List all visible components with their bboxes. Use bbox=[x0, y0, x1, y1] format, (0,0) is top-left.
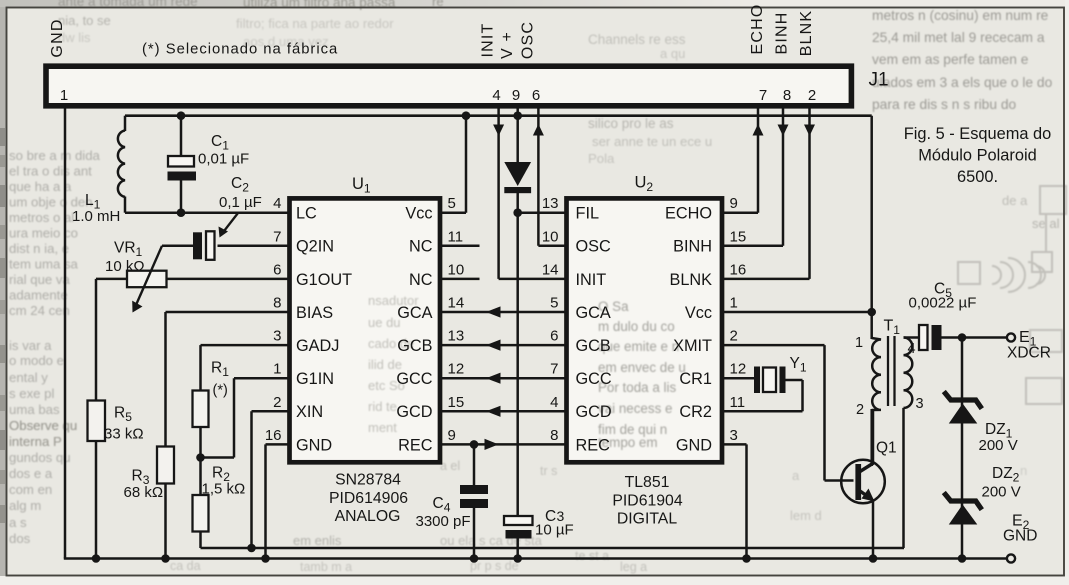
svg-text:(*): (*) bbox=[213, 383, 228, 399]
svg-text:tem uma sa: tem uma sa bbox=[9, 257, 79, 272]
svg-text:DIGITAL: DIGITAL bbox=[617, 511, 677, 528]
svg-text:INIT: INIT bbox=[576, 271, 607, 289]
svg-text:BIAS: BIAS bbox=[296, 304, 333, 322]
svg-text:ca da: ca da bbox=[170, 559, 201, 573]
svg-text:8: 8 bbox=[550, 427, 558, 444]
svg-text:200 V: 200 V bbox=[979, 437, 1018, 454]
svg-text:GADJ: GADJ bbox=[296, 337, 339, 355]
svg-text:15: 15 bbox=[448, 394, 465, 411]
svg-text:0,1 µF: 0,1 µF bbox=[219, 194, 262, 211]
svg-text:5: 5 bbox=[448, 195, 456, 212]
svg-text:so bre a m dida: so bre a m dida bbox=[9, 148, 101, 163]
svg-text:Vcc: Vcc bbox=[405, 205, 432, 223]
svg-text:0,01 µF: 0,01 µF bbox=[198, 151, 249, 168]
svg-text:que ha a a: que ha a a bbox=[9, 179, 72, 194]
svg-text:tamb m a: tamb m a bbox=[300, 560, 352, 574]
svg-text:ulados em 3 a els que o le: ulados em 3 a els que o le do bbox=[872, 75, 1053, 90]
svg-text:GCB: GCB bbox=[397, 337, 432, 355]
svg-text:1.0 mH: 1.0 mH bbox=[72, 208, 120, 225]
svg-text:6: 6 bbox=[550, 328, 558, 345]
svg-text:ental y: ental y bbox=[9, 370, 48, 385]
svg-text:GCC: GCC bbox=[396, 370, 432, 388]
svg-text:ura meio co: ura meio co bbox=[9, 226, 78, 241]
svg-text:GCB: GCB bbox=[576, 337, 611, 355]
svg-text:leg a: leg a bbox=[620, 560, 647, 574]
svg-text:ECHO: ECHO bbox=[665, 205, 712, 223]
svg-text:GCA: GCA bbox=[397, 304, 432, 322]
svg-text:em enlis: em enlis bbox=[293, 533, 342, 548]
svg-text:10 µF: 10 µF bbox=[535, 522, 574, 539]
svg-text:4: 4 bbox=[273, 195, 281, 212]
svg-text:NC: NC bbox=[409, 271, 433, 289]
svg-text:XMIT: XMIT bbox=[673, 337, 712, 355]
svg-text:11: 11 bbox=[730, 394, 746, 411]
svg-text:BINH: BINH bbox=[774, 11, 791, 54]
svg-text:9: 9 bbox=[448, 427, 456, 444]
svg-text:3: 3 bbox=[915, 396, 923, 412]
svg-text:LC: LC bbox=[296, 205, 317, 223]
svg-text:GND: GND bbox=[296, 436, 332, 454]
svg-text:filtro; fica na parte ao redor: filtro; fica na parte ao redor bbox=[236, 16, 394, 31]
svg-text:REC: REC bbox=[398, 436, 433, 454]
svg-text:7: 7 bbox=[273, 228, 281, 245]
svg-text:(*) Selecionado na fábrica: (*) Selecionado na fábrica bbox=[142, 42, 338, 58]
svg-text:uma bas: uma bas bbox=[9, 402, 60, 417]
svg-text:GCA: GCA bbox=[576, 304, 611, 322]
svg-text:a el: a el bbox=[440, 459, 460, 473]
svg-text:vem em as perfe tamen e: vem em as perfe tamen e bbox=[872, 52, 1029, 67]
svg-text:NC: NC bbox=[409, 238, 433, 256]
svg-text:Channels re ess: Channels re ess bbox=[588, 32, 686, 47]
svg-text:a: a bbox=[792, 468, 800, 483]
svg-text:ANALOG: ANALOG bbox=[335, 508, 401, 525]
svg-text:1,5 kΩ: 1,5 kΩ bbox=[202, 481, 246, 498]
svg-text:dos e a: dos e a bbox=[9, 466, 53, 481]
svg-text:te st a: te st a bbox=[575, 549, 609, 563]
svg-text:FIL: FIL bbox=[576, 205, 600, 223]
svg-text:9: 9 bbox=[512, 87, 520, 104]
svg-text:68 kΩ: 68 kΩ bbox=[124, 484, 164, 501]
svg-text:o modo e: o modo e bbox=[9, 353, 64, 368]
svg-text:alg m: alg m bbox=[9, 498, 41, 513]
svg-text:4: 4 bbox=[550, 394, 558, 411]
svg-text:Pola: Pola bbox=[588, 151, 615, 166]
svg-text:BLNK: BLNK bbox=[669, 271, 712, 289]
svg-text:3300 pF: 3300 pF bbox=[416, 513, 471, 530]
svg-text:INIT: INIT bbox=[480, 22, 497, 57]
svg-text:REC: REC bbox=[576, 436, 611, 454]
svg-text:Módulo Polaroid: Módulo Polaroid bbox=[918, 146, 1036, 164]
svg-text:s exe pl: s exe pl bbox=[9, 386, 55, 401]
svg-text:200 V: 200 V bbox=[982, 484, 1021, 501]
svg-text:5: 5 bbox=[550, 295, 558, 312]
svg-text:gundos qu: gundos qu bbox=[9, 450, 71, 465]
svg-text:ue du: ue du bbox=[368, 315, 401, 330]
svg-text:2: 2 bbox=[730, 328, 738, 345]
svg-text:OSC: OSC bbox=[520, 21, 537, 59]
svg-text:para re dis s n s ribu: para re dis s n s ribu do bbox=[872, 97, 1017, 112]
svg-text:G1OUT: G1OUT bbox=[296, 271, 352, 289]
svg-text:6: 6 bbox=[532, 87, 540, 104]
svg-text:GND: GND bbox=[1003, 528, 1037, 545]
svg-text:GND: GND bbox=[676, 436, 712, 454]
svg-text:utiliza um filtro ana passa: utiliza um filtro ana passa bbox=[243, 0, 396, 10]
svg-text:12: 12 bbox=[730, 361, 747, 378]
svg-text:16: 16 bbox=[730, 261, 747, 278]
svg-text:33 kΩ: 33 kΩ bbox=[104, 426, 144, 443]
svg-text:silico pro le as: silico pro le as bbox=[588, 116, 674, 131]
svg-text:ser anne te un ece u: ser anne te un ece u bbox=[592, 134, 712, 149]
svg-text:10: 10 bbox=[542, 228, 559, 245]
svg-text:2: 2 bbox=[856, 402, 864, 418]
svg-text:2: 2 bbox=[808, 87, 816, 104]
svg-text:1: 1 bbox=[730, 295, 738, 312]
svg-text:de a: de a bbox=[1002, 193, 1028, 208]
svg-text:3: 3 bbox=[730, 427, 738, 444]
svg-text:7: 7 bbox=[550, 361, 558, 378]
svg-text:rial que va: rial que va bbox=[9, 272, 71, 287]
svg-text:1: 1 bbox=[273, 361, 281, 378]
svg-text:PID61904: PID61904 bbox=[612, 493, 682, 510]
svg-text:6: 6 bbox=[273, 261, 281, 278]
svg-text:1: 1 bbox=[60, 87, 68, 104]
svg-text:n: n bbox=[1020, 463, 1027, 478]
svg-text:ECHO: ECHO bbox=[749, 3, 766, 54]
svg-text:Vcc: Vcc bbox=[685, 304, 712, 322]
svg-text:SN28784: SN28784 bbox=[335, 472, 401, 489]
svg-text:3: 3 bbox=[273, 328, 281, 345]
svg-text:10 kΩ: 10 kΩ bbox=[105, 258, 145, 275]
svg-text:interna P: interna P bbox=[9, 434, 62, 449]
svg-text:dos: dos bbox=[9, 531, 31, 546]
svg-text:a s: a s bbox=[9, 515, 27, 530]
svg-text:is var a: is var a bbox=[9, 338, 52, 353]
svg-text:OSC: OSC bbox=[576, 238, 612, 256]
svg-text:15: 15 bbox=[730, 228, 747, 245]
svg-text:tr s: tr s bbox=[540, 464, 557, 478]
svg-text:GCD: GCD bbox=[576, 403, 612, 421]
svg-text:G1IN: G1IN bbox=[296, 370, 334, 388]
svg-text:BINH: BINH bbox=[673, 238, 712, 256]
svg-text:9: 9 bbox=[730, 195, 738, 212]
svg-text:Q1: Q1 bbox=[876, 440, 897, 457]
svg-text:dist n ia, e: dist n ia, e bbox=[9, 241, 69, 256]
svg-text:a qu: a qu bbox=[660, 46, 685, 61]
svg-text:6500.: 6500. bbox=[957, 168, 998, 186]
svg-text:8: 8 bbox=[273, 295, 281, 312]
svg-text:4: 4 bbox=[492, 87, 500, 104]
svg-text:25,4 mil met lal 9 rececam a: 25,4 mil met lal 9 rececam a bbox=[872, 30, 1045, 45]
svg-text:com en: com en bbox=[9, 482, 52, 497]
svg-text:8: 8 bbox=[783, 87, 791, 104]
svg-text:TL851: TL851 bbox=[625, 474, 670, 491]
svg-text:14: 14 bbox=[448, 295, 465, 312]
svg-text:GCD: GCD bbox=[396, 403, 432, 421]
svg-text:13: 13 bbox=[448, 328, 465, 345]
svg-text:13: 13 bbox=[542, 195, 559, 212]
svg-text:cm 24 cen: cm 24 cen bbox=[9, 303, 70, 318]
svg-text:lem d: lem d bbox=[790, 508, 822, 523]
svg-text:12: 12 bbox=[448, 361, 465, 378]
svg-text:Observe qu: Observe qu bbox=[9, 418, 77, 433]
svg-text:Q2IN: Q2IN bbox=[296, 238, 334, 256]
svg-text:ment: ment bbox=[368, 420, 397, 435]
svg-text:XDCR: XDCR bbox=[1007, 345, 1051, 362]
svg-text:GCC: GCC bbox=[576, 370, 612, 388]
svg-text:CR2: CR2 bbox=[679, 403, 712, 421]
svg-text:el tra o dis ant: el tra o dis ant bbox=[9, 164, 92, 179]
svg-text:V +: V + bbox=[499, 31, 516, 59]
svg-text:2: 2 bbox=[273, 394, 281, 411]
svg-text:CR1: CR1 bbox=[679, 370, 712, 388]
svg-text:GND: GND bbox=[49, 18, 66, 57]
svg-text:14: 14 bbox=[542, 261, 559, 278]
svg-text:XIN: XIN bbox=[296, 403, 323, 421]
svg-text:16: 16 bbox=[265, 427, 282, 444]
svg-text:1: 1 bbox=[855, 335, 863, 351]
svg-text:rid te: rid te bbox=[368, 399, 397, 414]
svg-text:BLNK: BLNK bbox=[798, 10, 815, 57]
svg-text:PID614906: PID614906 bbox=[329, 490, 408, 507]
svg-text:4: 4 bbox=[907, 341, 915, 357]
svg-text:metros n (cosinu) em num re: metros n (cosinu) em num re bbox=[872, 8, 1049, 23]
svg-text:J1: J1 bbox=[869, 70, 889, 91]
svg-text:Fig. 5 - Esquema do: Fig. 5 - Esquema do bbox=[904, 125, 1052, 143]
svg-text:11: 11 bbox=[448, 228, 464, 245]
svg-text:adamente: adamente bbox=[9, 288, 68, 303]
svg-text:7: 7 bbox=[759, 87, 767, 104]
svg-text:10: 10 bbox=[448, 261, 465, 278]
svg-text:0,0022 µF: 0,0022 µF bbox=[909, 295, 977, 312]
